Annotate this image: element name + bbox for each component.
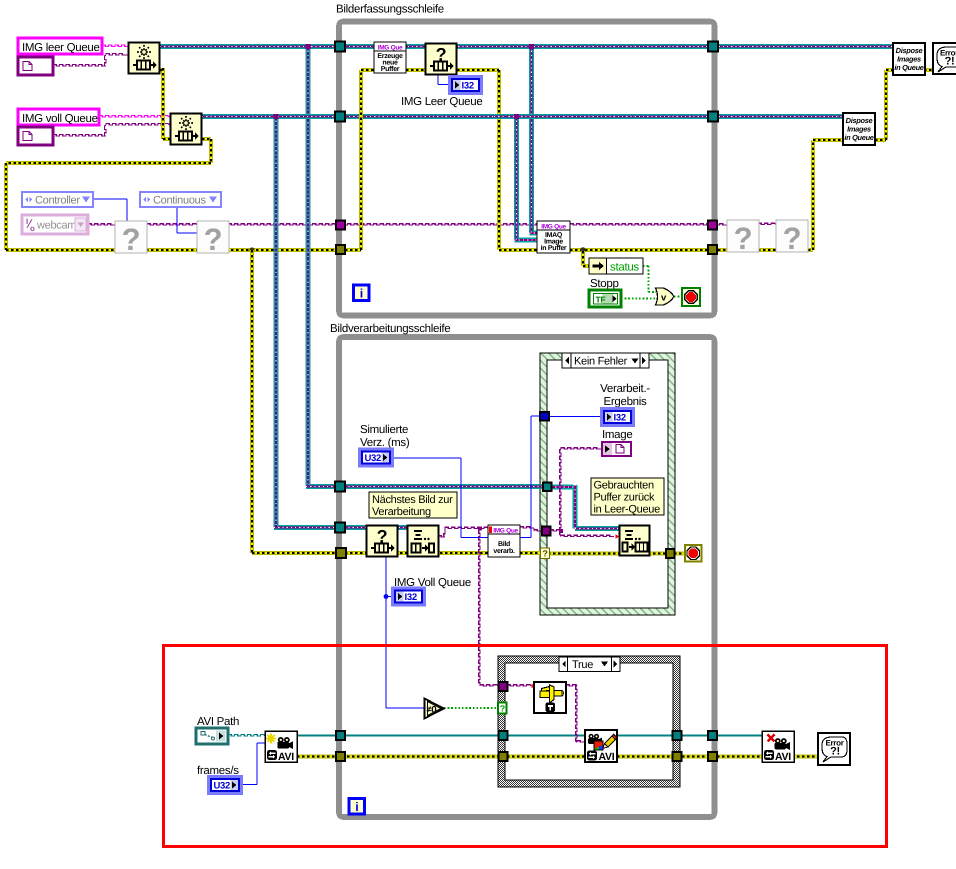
svg-text:Simulierte: Simulierte bbox=[360, 424, 408, 436]
tunnel olive case1 right error bbox=[666, 549, 675, 558]
node Obtain Queue 2 bbox=[171, 114, 202, 145]
tunnel teal loop1 right queue1 bbox=[708, 42, 718, 52]
loop1 conditional stop terminal bbox=[682, 288, 700, 306]
loop1 iteration terminal i bbox=[354, 285, 370, 301]
wire path teal AVI Path to AVI create bbox=[228, 735, 265, 737]
svg-text:True: True bbox=[572, 659, 593, 671]
node Dispose Images in Queue 1 bbox=[893, 43, 925, 75]
svg-text:?: ? bbox=[122, 222, 141, 257]
wire blue GetStatus down to neq0 bbox=[385, 557, 387, 708]
wire green neq0 to True selector bbox=[444, 707, 498, 709]
red highlight rectangle bbox=[164, 646, 887, 847]
node Enqueue Element (sigma) bbox=[620, 526, 650, 556]
tunnel teal loop2 left queue-voll bbox=[335, 523, 345, 533]
control U32 Simulierte Verz bbox=[360, 449, 393, 466]
node IMAQ Image in Puffer bbox=[537, 221, 570, 253]
svg-text:Bildverarbeitungsschleife: Bildverarbeitungsschleife bbox=[330, 323, 450, 335]
case structure 'Kein Fehler' border frame bbox=[540, 353, 675, 615]
while loop 2 Bildverarbeitungsschleife border bbox=[339, 337, 715, 817]
node Simple Error Handler AVI bbox=[818, 733, 850, 765]
svg-text:I32: I32 bbox=[614, 413, 626, 424]
svg-text:Controller: Controller bbox=[35, 195, 80, 207]
node Get Queue Status loop2 (? queue) bbox=[367, 526, 398, 557]
tunnel teal loop2 left AVI refnum bbox=[336, 731, 345, 740]
svg-text:IMG Que: IMG Que bbox=[493, 527, 518, 534]
free label Gebrauchten Puffer zurueck bbox=[591, 478, 664, 515]
wire queue leer inside loop2 to case bbox=[340, 484, 547, 489]
svg-text:I32: I32 bbox=[462, 81, 474, 92]
tunnel magenta case1 image bbox=[542, 527, 551, 536]
wire error ObtainQ2 out loop to left edge bbox=[202, 137, 211, 141]
svg-text:?: ? bbox=[783, 221, 802, 256]
wire image purple case tunnel junction to Image indicator bbox=[550, 530, 561, 531]
node Bild verarb bbox=[488, 525, 520, 557]
loop2 iteration terminal i bbox=[349, 799, 365, 815]
string control IMG leer Queue bbox=[18, 38, 102, 54]
wire error Dispose2 to Dispose1 bbox=[875, 138, 886, 142]
selector tunnel True-case boolean ? bbox=[498, 703, 507, 714]
wire AVI refnum create to write to close bbox=[297, 735, 762, 737]
svg-text:Stopp: Stopp bbox=[590, 278, 619, 290]
svg-text:AVI: AVI bbox=[775, 751, 791, 763]
svg-text:TF: TF bbox=[596, 295, 606, 305]
free label Naechstes Bild zur Verarbeitung bbox=[369, 492, 457, 518]
junction queue2 at x=516 bbox=[514, 114, 519, 119]
svg-text:IMG leer Queue: IMG leer Queue bbox=[22, 42, 100, 54]
node OR gate bbox=[656, 288, 674, 305]
svg-text:I: I bbox=[26, 217, 28, 226]
case1 selector label Kein Fehler bbox=[562, 353, 649, 368]
wire error right of loop1 to Dispose2 bbox=[713, 248, 813, 252]
wire queue vertical overlay at purple/error crossings x=276 bbox=[274, 218, 279, 258]
wire IMAQ session purple loop1 to ?3 ?4 bbox=[570, 224, 712, 225]
coercion dot red at Enqueue input bbox=[616, 534, 620, 539]
wire string pink IMG voll Queue to Obtain Queue 2 bbox=[99, 116, 170, 118]
svg-text:?: ? bbox=[500, 704, 505, 714]
svg-text:Verarbeitung: Verarbeitung bbox=[372, 506, 431, 518]
indicator status (unbundle) bbox=[589, 258, 607, 274]
junction error at x=583 bbox=[580, 247, 586, 253]
tunnel teal loop2 left queue-leer bbox=[335, 482, 345, 492]
wire queue2 IMG-voll horizontal bbox=[202, 114, 843, 119]
wire path purple control1 to Obtain Queue 1 bbox=[53, 65, 106, 67]
svg-text:i: i bbox=[360, 287, 363, 301]
tunnel olive True-case left error bbox=[499, 752, 508, 761]
wire queue vertical overlay at purple/error crossings x=308 bbox=[306, 218, 311, 258]
svg-text:IMG Que: IMG Que bbox=[541, 223, 566, 230]
junction queue1 at x=308 bbox=[306, 44, 311, 49]
tunnel teal loop1 left queue2 bbox=[335, 112, 345, 122]
tunnel teal loop1 right queue2 bbox=[708, 112, 718, 122]
while loop 1 Bilderfassungsschleife border bbox=[339, 22, 715, 316]
wire string pink IMG leer Queue to Obtain Queue 1 bbox=[102, 45, 128, 47]
svg-text:in Leer-Queue: in Leer-Queue bbox=[594, 504, 661, 516]
svg-text:Nächstes Bild zur: Nächstes Bild zur bbox=[372, 494, 453, 506]
tunnel olive loop2 right AVI error bbox=[708, 752, 717, 761]
wire error dequeue down to IMAQ bbox=[457, 68, 499, 72]
wire queue1 IMG-leer horizontal bbox=[160, 44, 893, 49]
junction queue1 at x=531 bbox=[529, 44, 534, 49]
enum control Controller bbox=[22, 192, 93, 207]
svg-text:?!: ?! bbox=[830, 746, 840, 758]
wire error inside loop2 to case selector bbox=[340, 551, 543, 555]
wire error branch to status bbox=[581, 251, 585, 266]
wire image purple junction down to Enqueue bbox=[560, 531, 561, 537]
tunnel teal True-case left AVI bbox=[499, 731, 508, 740]
wire error inside loop1 tunnel up to Erzeuge bbox=[340, 248, 361, 252]
wire image purple key node to AVI write bbox=[507, 685, 531, 686]
wire error ObtainQ1 to ObtainQ2 bbox=[160, 68, 163, 72]
svg-text:status: status bbox=[610, 262, 639, 274]
svg-text:?: ? bbox=[734, 221, 753, 256]
tunnel olive loop1 left error bbox=[336, 245, 345, 254]
tunnel magenta loop1 right session bbox=[708, 221, 717, 230]
wire queue2 branch to IMAQ in loop1 bbox=[514, 117, 519, 241]
svg-text:AVI: AVI bbox=[278, 751, 294, 763]
svg-text:in Queue: in Queue bbox=[894, 63, 923, 72]
svg-text:Bilderfassungsschleife: Bilderfassungsschleife bbox=[336, 4, 444, 16]
svg-text:i: i bbox=[355, 800, 358, 814]
wire queue1 branch down to loop2 bbox=[306, 47, 311, 487]
node AVI Write frame bbox=[585, 730, 617, 762]
wire error IMAQ to right tunnel bbox=[570, 248, 713, 252]
indicator Image (purple) bbox=[602, 442, 631, 456]
node AVI Create bbox=[265, 731, 297, 762]
enum control Continuous bbox=[140, 192, 221, 207]
wire IMAQ session purple from webcam bbox=[88, 224, 116, 225]
tunnel teal case1 queue-leer bbox=[543, 483, 552, 492]
indicator I32 Verarbeit-Ergebnis bbox=[602, 409, 634, 426]
wire queue vertical overlay inside loop1 x=531 bbox=[529, 218, 534, 230]
wire error Dispose1 to error handler bbox=[924, 68, 933, 72]
unknown VI node ?4 (right of loop1) bbox=[776, 220, 808, 252]
tunnel teal loop1 left queue1 bbox=[335, 42, 345, 52]
string control IMG voll Queue bbox=[18, 109, 99, 125]
svg-text:Image: Image bbox=[602, 429, 632, 441]
svg-text:Verz. (ms): Verz. (ms) bbox=[360, 437, 410, 449]
junction blue at y=596 bbox=[384, 594, 389, 599]
svg-text:Ergebnis: Ergebnis bbox=[604, 396, 648, 408]
svg-text:U32: U32 bbox=[214, 781, 231, 792]
svg-text:IMG Que: IMG Que bbox=[378, 44, 403, 51]
True case selector label bbox=[559, 657, 620, 672]
selector tunnel case1 error ? bbox=[541, 548, 550, 559]
wire green Stopp TF to OR gate bbox=[621, 298, 656, 300]
tunnel teal True-case right AVI bbox=[673, 731, 682, 740]
path control AVI Path bbox=[196, 728, 228, 744]
wire queue voll inside loop2 to GetStatus/Dequeue bbox=[340, 525, 407, 530]
unknown VI node ?3 (right of loop1) bbox=[727, 220, 759, 252]
node Dequeue Element (sigma) bbox=[408, 526, 439, 557]
indicator I32 IMG Leer Queue bbox=[450, 77, 482, 94]
tunnel magenta loop1 left session bbox=[336, 221, 345, 230]
svg-text:webcam: webcam bbox=[36, 220, 76, 232]
node key-unlock (IMAQ image unlock) bbox=[534, 682, 566, 713]
tunnel purple True-case image bbox=[499, 682, 508, 691]
wire image purple DequeueElem to Bild-verarb bbox=[438, 536, 445, 537]
svg-text:Continuous: Continuous bbox=[153, 195, 206, 207]
svg-text:?!: ?! bbox=[945, 56, 955, 68]
case structure 'True' border frame bbox=[498, 656, 680, 787]
wire error Erzeuge to dequeue bbox=[406, 68, 425, 72]
IO control webcam bbox=[22, 215, 88, 234]
unknown VI node ?1 (controller) bbox=[115, 221, 147, 253]
wire queue leer inside case to enqueue bbox=[551, 485, 573, 490]
svg-text:≠0: ≠0 bbox=[427, 704, 437, 715]
wire blue Controller to ?1 bbox=[93, 198, 127, 200]
loop2 conditional stop terminal bbox=[685, 545, 702, 562]
junction image at x=480 bbox=[478, 527, 482, 531]
svg-text:Puffer zurück: Puffer zurück bbox=[594, 492, 656, 504]
svg-text:AVI Path: AVI Path bbox=[197, 716, 239, 728]
boolean control Stopp TF bbox=[589, 290, 621, 307]
svg-text:AVI: AVI bbox=[599, 751, 615, 763]
node Simple Error Handler top-right bbox=[933, 43, 956, 74]
wire image purple down to True case bbox=[479, 530, 480, 686]
svg-text:Bild: Bild bbox=[498, 540, 510, 548]
svg-text:in Puffer: in Puffer bbox=[541, 244, 567, 252]
control U32 frames per second bbox=[209, 777, 242, 794]
node AVI Close bbox=[762, 731, 794, 762]
svg-text:U32: U32 bbox=[365, 453, 382, 464]
wire green status to OR gate bbox=[643, 265, 649, 267]
wire error inside case to right tunnel bbox=[548, 552, 670, 556]
wire queue vertical overlay inside loop1 x=516 bbox=[514, 218, 519, 232]
svg-text:IMG voll Queue: IMG voll Queue bbox=[22, 113, 98, 125]
junction image at x=561 bbox=[559, 529, 563, 533]
svg-text:o: o bbox=[30, 224, 35, 233]
wire error branch down to loop2 bbox=[250, 250, 254, 553]
wire queue2 branch down to loop2 bbox=[274, 117, 279, 528]
indicator I32 IMG Voll Queue bbox=[393, 588, 425, 605]
junction queue2 at x=276 bbox=[274, 114, 279, 119]
node not-equal-zero bbox=[425, 699, 445, 719]
svg-text:Kein Fehler: Kein Fehler bbox=[574, 356, 628, 368]
svg-text:?: ? bbox=[204, 222, 223, 257]
wire blue result BildVerarb up to case tunnel bbox=[520, 537, 531, 539]
wire queue2 overlay over error vertical x=499 bbox=[494, 114, 506, 119]
wire blue frames to AVI create bbox=[241, 784, 257, 786]
svg-text:?: ? bbox=[542, 549, 547, 559]
junction error at x=252 bbox=[249, 247, 254, 252]
wire blue junction to IMG Voll I32 bbox=[386, 596, 393, 598]
wire blue U32 Simulierte to BildVerarb bbox=[392, 457, 461, 459]
image type control 1 (purple refnum with page icon) bbox=[18, 57, 53, 75]
svg-text:I32: I32 bbox=[405, 592, 417, 603]
svg-text:in Queue: in Queue bbox=[844, 133, 873, 142]
wire blue Continuous to ?2 bbox=[176, 207, 178, 233]
node Dispose Images in Queue 2 bbox=[843, 113, 875, 145]
svg-text:IMG Leer Queue: IMG Leer Queue bbox=[401, 96, 482, 108]
node Obtain Queue 1 bbox=[129, 43, 160, 74]
coercion dot red at key node input bbox=[532, 684, 536, 688]
svg-text:Verarbeit.-: Verarbeit.- bbox=[600, 383, 650, 395]
wire error AVI row bbox=[297, 755, 818, 759]
wire blue case tunnel to I32 Verarbeit bbox=[548, 416, 602, 418]
tunnel olive loop1 right error bbox=[708, 245, 717, 254]
svg-text:verarb.: verarb. bbox=[493, 547, 515, 555]
tunnel teal loop2 right AVI refnum bbox=[708, 731, 717, 740]
tunnel olive loop2 left error bbox=[336, 548, 346, 558]
wire green OR to loop1 stop terminal bbox=[674, 296, 682, 298]
unknown VI node ?2 (continuous) bbox=[197, 221, 229, 253]
wire path purple control2 to Obtain Queue 2 bbox=[53, 135, 106, 137]
image type control 2 (purple refnum with page icon) bbox=[18, 127, 53, 145]
wire IMAQ session purple inside loop1 bbox=[341, 224, 553, 225]
node Get Queue Status loop1 (? queue) bbox=[426, 44, 457, 75]
tunnel blue case1 result bbox=[540, 412, 549, 421]
wire image purple BildVerarb to case tunnel bbox=[520, 527, 534, 528]
wire error case to loop2 stop terminal bbox=[674, 552, 686, 556]
svg-text:Gebrauchten: Gebrauchten bbox=[594, 480, 654, 492]
svg-text:Puffer: Puffer bbox=[381, 65, 400, 73]
wire queue1 branch to IMAQ in loop1 bbox=[529, 47, 534, 234]
wire image purple key out down to AVI write bbox=[566, 685, 577, 686]
tunnel olive True-case right error bbox=[673, 752, 682, 761]
tunnel olive loop2 left AVI error bbox=[336, 752, 345, 761]
node Erzeuge neue Puffer bbox=[374, 42, 406, 73]
wire blue dequeue to I32 loop1 bbox=[437, 74, 439, 85]
